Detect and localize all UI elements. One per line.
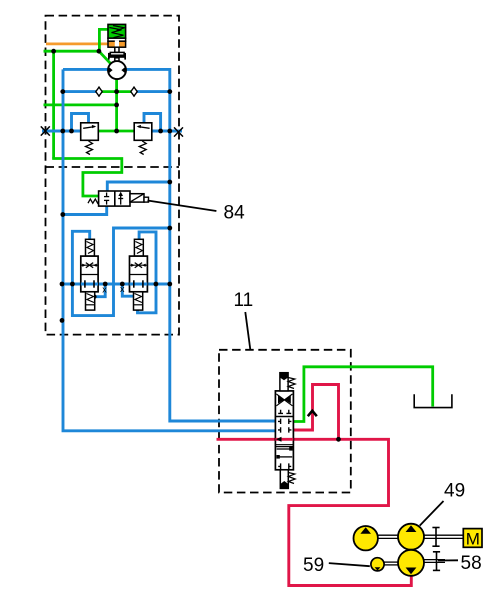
wire red to pump (289, 439, 412, 585)
spring right compensator (139, 141, 146, 155)
orange piston cells (108, 41, 126, 47)
pilot actuator box 84 (130, 194, 144, 202)
solenoid/pilot actuator assembly top (108, 24, 126, 61)
solenoid coil box (green) (108, 24, 126, 38)
piston stem (115, 47, 119, 52)
wire left bus (63, 69, 276, 430)
svg-text:84: 84 (224, 203, 246, 224)
wire between diamonds y91.6 (99, 90, 134, 93)
wire valve11 B port loop (293, 385, 339, 440)
valve 84 (88, 191, 149, 206)
wire left green drop x53.6 (52, 51, 55, 158)
svg-text:x: x (102, 285, 107, 295)
svg-text:11: 11 (234, 290, 254, 311)
wire row y131 right (152, 130, 182, 133)
wire LS header y105 (44, 104, 117, 107)
tank symbol (414, 394, 452, 407)
wire left compensator loop (72, 114, 89, 132)
dashed enclosure box 11 (219, 350, 351, 493)
wire red through valve11 (217, 438, 339, 441)
row passes through body (81, 283, 98, 286)
port ticks on LS row (84, 280, 86, 287)
left cell blocked ports (104, 193, 109, 205)
wire right compensator loop (144, 114, 161, 132)
right cell flow arrow (118, 194, 123, 205)
coupling lower (433, 552, 440, 571)
wire solenoid to junction (99, 29, 108, 51)
coupling upper (432, 528, 439, 547)
svg-text:x: x (120, 284, 125, 294)
wire row mid green y131 (97, 130, 135, 133)
wire row y131 left (42, 130, 81, 133)
proportional stack left (81, 239, 98, 310)
c3 orifice lines (277, 448, 291, 450)
wire diagonal to pump circle (99, 51, 112, 64)
c1 port stubs (278, 410, 291, 433)
dashed enclosure box top (valve block) (46, 16, 180, 335)
svg-text:59: 59 (303, 555, 324, 576)
compensator valve right (134, 123, 152, 155)
wire right stack pilot (122, 284, 133, 296)
pump 59 small circle (371, 558, 384, 571)
spring left compensator (86, 141, 93, 155)
wire valve84 top to right bus (107, 182, 170, 192)
svg-text:M: M (466, 529, 480, 548)
wire left stack pilot (95, 284, 106, 297)
wire row y91.6 left (63, 90, 97, 93)
main body (81, 256, 98, 292)
motor M box (463, 529, 482, 549)
green net (44, 29, 433, 421)
directional valve 11 (275, 373, 295, 489)
spring 84 (88, 199, 99, 203)
svg-text:58: 58 (461, 553, 482, 574)
wire LS row y284 (62, 283, 170, 286)
lever bar (109, 55, 126, 57)
plugged port X right (174, 127, 183, 136)
wire pump outlet to right bus (122, 69, 276, 421)
leader 59 (329, 563, 370, 566)
drive shafts double lines (378, 535, 464, 565)
orange pilot line (46, 43, 109, 46)
proportional stack right (130, 239, 148, 310)
wire right stack loop vertical (138, 232, 157, 313)
leader 49 (420, 501, 444, 526)
pump 49 upper-left circle (354, 526, 378, 550)
top actuator valve 11 (280, 373, 288, 391)
pump circle (108, 61, 126, 79)
compensator valve left (81, 123, 99, 155)
bottom actuator valve 11 (280, 470, 288, 489)
wire y228 link and under-stack U (72, 228, 169, 316)
blue net (42, 69, 276, 430)
red net (217, 385, 412, 586)
wire row y91.6 right (137, 90, 170, 93)
svg-text:49: 49 (444, 481, 465, 502)
leader 84 (148, 201, 217, 212)
wire valve84 bottom to left bus (63, 206, 107, 215)
leader 11 (245, 312, 250, 350)
dashed divider (46, 166, 180, 168)
metering X symbol (82, 263, 97, 268)
wire valve11 A to tank (293, 367, 433, 422)
c2 port stubs (278, 419, 281, 424)
pump 58 lower-right circle (398, 550, 424, 576)
armature white band (108, 38, 126, 41)
wire circle bottom drop (115, 78, 118, 131)
wire pump suction top (63, 68, 112, 71)
pilot spring box bottom (86, 292, 95, 310)
flow arrow on red riser (308, 411, 317, 416)
plugged port X left (41, 126, 50, 135)
pilot spring box top (86, 239, 95, 256)
leader 58 (438, 559, 458, 561)
orifice diamond right (131, 87, 137, 97)
c1 bowtie X (278, 396, 284, 404)
wire staircase to valve 84 (54, 157, 122, 196)
orifice diamond left (96, 87, 102, 97)
wire pilot header y51 (44, 50, 99, 53)
pump 49 upper-right circle (398, 524, 424, 550)
c4 port stubs (278, 463, 291, 469)
plate (110, 52, 124, 55)
red passes through cell c2/c3 boundary (275, 438, 293, 441)
stem to pump (115, 58, 119, 62)
